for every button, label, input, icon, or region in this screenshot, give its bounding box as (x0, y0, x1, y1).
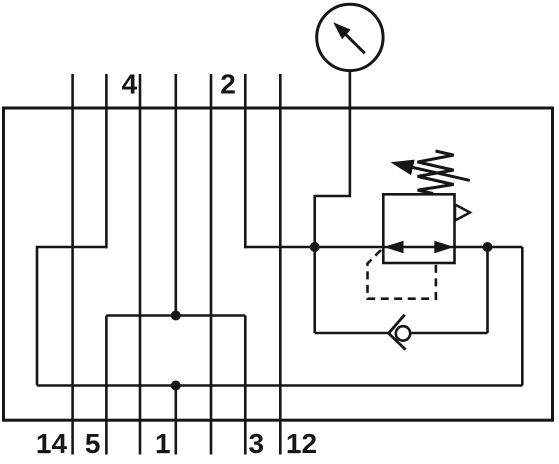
check valve V1 (389, 315, 411, 350)
wire: regulator main line (245, 246, 522, 249)
pressure gauge G1 (317, 4, 383, 70)
wire: gauge stem (315, 71, 350, 333)
pilot dashed line (368, 250, 436, 299)
manifold block outline (4, 108, 553, 420)
wire: right drop to bus (521, 247, 524, 386)
regulator relief triangle (455, 205, 470, 221)
port line 4 (upper segment) (105, 74, 108, 248)
port line 3 (upper segment) (244, 74, 247, 248)
port line between 4 and 2 (139, 74, 142, 455)
svg-text:4: 4 (122, 69, 138, 100)
adjustment arrow over spring (391, 160, 470, 181)
port line 14 (71, 74, 74, 455)
svg-text:2: 2 (220, 69, 236, 100)
port line 3 (lower segment) (244, 316, 247, 455)
port line 2/1 (175, 74, 178, 316)
svg-text:14: 14 (36, 428, 68, 459)
wire: check valve loop (315, 247, 488, 333)
serif foot of label 1 (157, 450, 169, 453)
svg-text:1: 1 (155, 428, 171, 459)
node: gauge-main junction (310, 242, 320, 252)
port line 5 (lower segment) (105, 316, 108, 455)
node: checkloop-main junction (483, 242, 493, 252)
regulator spring (418, 151, 454, 194)
wire: port-4 step down (37, 247, 106, 386)
wire: bottom bus (37, 384, 522, 387)
port line 12 (279, 74, 282, 455)
port line left of 2 label (210, 74, 213, 455)
wire: mid link 5 to 3 (106, 314, 245, 317)
port line 1 (lower segment) (175, 386, 178, 455)
serif foot of 1 in label 12 (288, 450, 300, 453)
node: port1-bus junction (171, 381, 181, 391)
node: port1-mid junction (171, 311, 181, 321)
svg-text:12: 12 (286, 428, 317, 459)
svg-text:5: 5 (85, 428, 101, 459)
svg-text:3: 3 (249, 428, 265, 459)
regulator flow double arrow (384, 241, 454, 254)
pressure regulator U1 body (383, 194, 454, 263)
serif foot of 1 in label 14 (39, 450, 51, 453)
